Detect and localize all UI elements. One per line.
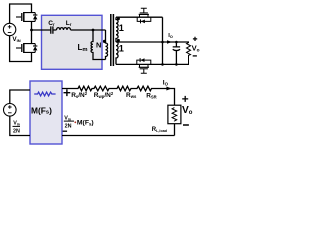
svg-text:M(Fs): M(Fs) <box>31 105 52 115</box>
svg-text:1: 1 <box>119 23 124 33</box>
svg-text:2N: 2N <box>13 129 20 135</box>
svg-text:N: N <box>96 40 101 49</box>
svg-text:M(Fs): M(Fs) <box>77 120 94 127</box>
svg-text:Rwp/N2: Rwp/N2 <box>94 91 114 99</box>
svg-text:1: 1 <box>119 43 124 53</box>
svg-text:Cr: Cr <box>48 20 55 27</box>
svg-text:Lr: Lr <box>66 20 72 27</box>
svg-text:VIN: VIN <box>12 36 20 43</box>
svg-text:2N: 2N <box>65 124 72 130</box>
